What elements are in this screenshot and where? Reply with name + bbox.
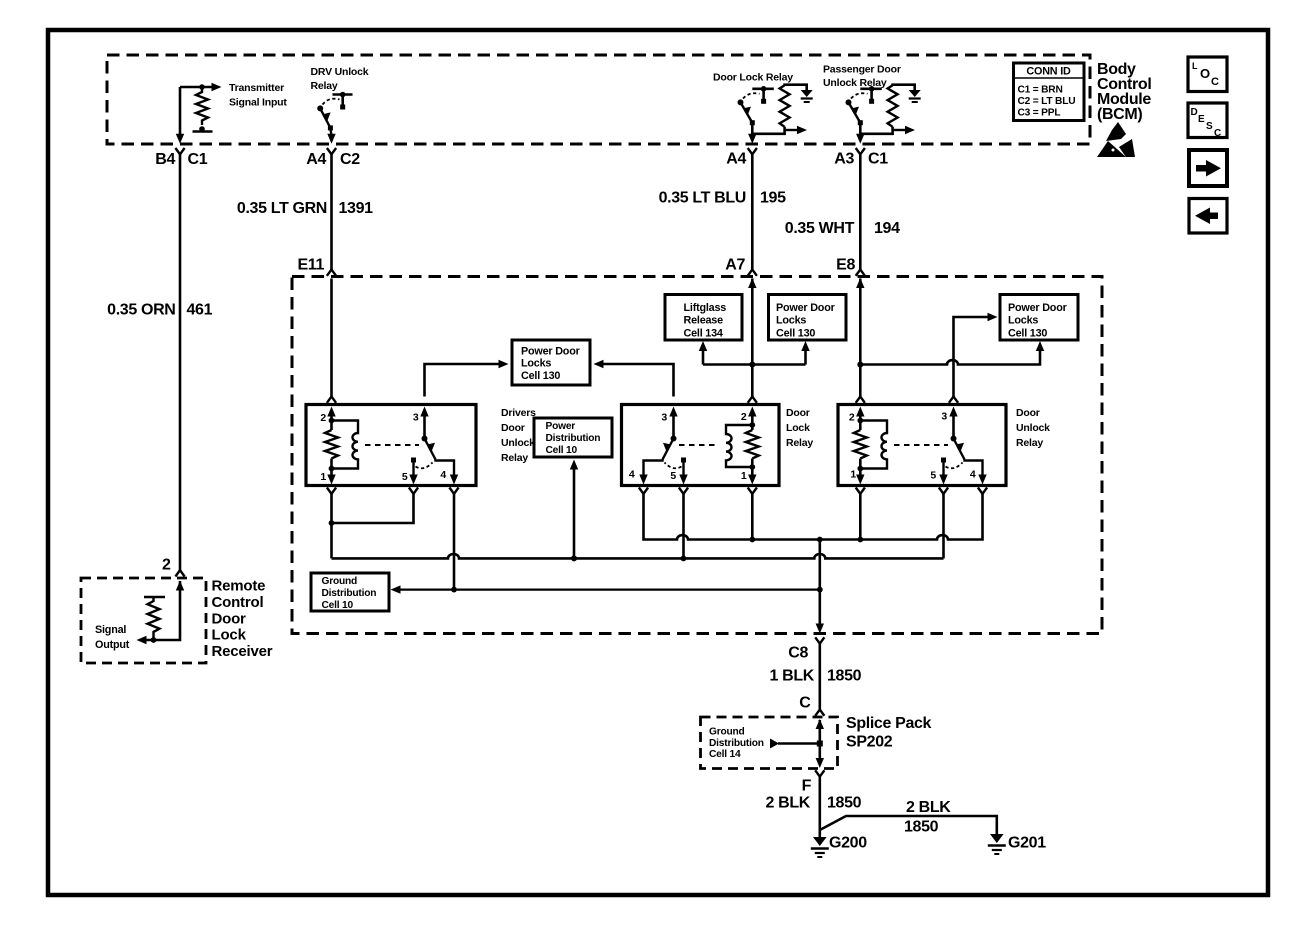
svg-text:C: C [1214,128,1221,139]
svg-text:Door: Door [212,611,247,628]
arrow from relay A pin3 to PDL box1 [425,360,509,397]
svg-text:Cell 10: Cell 10 [322,600,354,611]
svg-text:0.35 ORN: 0.35 ORN [107,302,175,319]
BCM dashed box [107,55,1090,144]
svg-text:A4: A4 [726,151,746,168]
ground bus 1 with hops [332,554,944,558]
svg-text:Cell 130: Cell 130 [521,370,560,382]
relay A label [501,407,536,464]
svg-text:5: 5 [930,470,936,482]
splice internal wire [816,720,824,768]
remote control door lock receiver dashed box [81,578,206,663]
connector A7 [725,257,757,289]
wire relay C pin 1 to bus 2 [857,494,863,543]
Y connectors below relay A [327,488,459,494]
svg-text:Door: Door [786,407,810,419]
svg-text:Release: Release [684,315,724,327]
svg-text:0.35 LT GRN: 0.35 LT GRN [237,200,327,217]
svg-text:Drivers: Drivers [501,407,536,419]
svg-text:Relay: Relay [501,452,528,464]
svg-text:Output: Output [95,639,130,651]
relay C pin 2 [849,407,865,431]
svg-text:SP202: SP202 [846,734,893,751]
relay B pin 2 [741,407,757,431]
button back arrow [1189,199,1227,234]
svg-text:C3 = PPL: C3 = PPL [1018,108,1061,119]
svg-text:C: C [1211,76,1219,88]
ground G201 [988,834,1046,854]
button LOC [1188,57,1227,92]
svg-text:0.35 LT BLU: 0.35 LT BLU [659,190,746,207]
wire C8 drop [816,537,824,634]
svg-text:C1 = BRN: C1 = BRN [1018,85,1063,96]
relay B coil-switch dashed link [679,444,719,446]
svg-text:A4: A4 [306,151,326,168]
svg-text:2 BLK: 2 BLK [906,799,951,816]
svg-text:C2: C2 [340,151,360,168]
svg-text:2: 2 [741,411,747,423]
arrow from relay B pin3 to PDL box1 [594,360,674,397]
splice internal arrow [770,739,823,749]
passenger relay coil resistor [862,85,915,134]
svg-text:1: 1 [741,470,747,482]
svg-text:1850: 1850 [827,668,862,685]
relay C pin 1 [850,459,864,485]
svg-text:2: 2 [162,557,171,574]
door lock relay coil resistor [754,85,807,134]
svg-text:CONN ID: CONN ID [1026,66,1071,78]
inner dashed box (relay compartment) [292,277,1102,634]
svg-text:2: 2 [320,412,326,424]
relay C pin3 riser arrow to PDL box3 [949,313,998,403]
svg-text:Splice Pack: Splice Pack [846,715,932,732]
relay box B: Door Lock Relay [622,405,780,486]
Liftglass Release Cell 134 box [665,295,742,341]
receiver resistor [144,597,165,643]
relay C resistor [854,430,867,459]
svg-text:2 BLK: 2 BLK [766,795,811,812]
relay A pin 4 [440,469,458,485]
svg-text:Door: Door [1016,407,1040,419]
svg-text:G201: G201 [1008,835,1046,852]
transmitter signal input label [229,82,287,109]
relay B pin 5 [665,458,688,485]
connector C (splice entry) [799,695,824,730]
wire 0.35 LT BLU 195 [659,154,787,270]
relay A pin 5 [402,458,433,485]
relay C coil loop [857,421,887,472]
relay C coil-switch dashed link [894,444,948,446]
ground distribution cell 14 label [709,727,764,761]
wire 0.35 LT GRN 1391 [237,154,373,270]
signal output label [95,624,130,651]
relay A pin 2 [320,407,335,431]
svg-text:Cell 134: Cell 134 [684,328,723,340]
svg-text:Unlock Relay: Unlock Relay [823,77,887,89]
DRV Unlock Relay label [311,66,369,92]
branch wire to G201 [820,799,997,836]
Y connectors below relay B [639,488,757,494]
ground G200 [811,835,867,858]
wire relay A pins 1+5 join [329,494,414,559]
svg-text:Distribution: Distribution [709,738,764,749]
relay B pin 4 [629,469,648,485]
svg-text:Transmitter: Transmitter [229,82,284,94]
svg-text:1: 1 [850,469,856,481]
svg-text:1 BLK: 1 BLK [770,668,815,685]
wire 1 BLK 1850 [770,644,862,710]
bus E8 to PDL box3 with hop [860,341,1044,365]
receiver label [212,578,273,661]
svg-text:Door Lock Relay: Door Lock Relay [713,72,793,84]
svg-text:3: 3 [661,412,667,424]
button next arrow [1189,150,1227,186]
svg-text:F: F [802,778,812,795]
svg-text:E: E [1198,114,1205,125]
relay B pin 1 [741,459,757,485]
transmitter resistor [193,87,213,132]
relay A pin 3 switch [413,407,454,479]
svg-text:0.35 WHT: 0.35 WHT [785,220,855,237]
door lock relay symbol [738,86,774,144]
relay A pin 1 [320,459,335,485]
svg-text:195: 195 [760,190,786,207]
svg-text:Power Door: Power Door [521,346,581,358]
svg-text:Cell 14: Cell 14 [709,749,741,760]
DRV unlock relay symbol [317,92,352,144]
svg-text:5: 5 [402,471,408,483]
wire B4 drop inside BCM [176,87,184,144]
wire E11 to relay A pin2 [327,279,336,403]
ESD symbol [1097,122,1135,157]
relay C pin 5 [930,458,962,485]
bus 2 with hops [644,494,983,540]
svg-text:A3: A3 [834,151,854,168]
svg-text:E11: E11 [297,257,324,274]
bus liftglass to PDL box2 [703,363,806,366]
svg-text:C1: C1 [188,151,208,168]
passenger relay ground [909,90,921,102]
svg-text:3: 3 [413,412,419,424]
connector A4 (relay) [726,148,757,168]
relay box A: Drivers Door Unlock Relay [306,405,476,486]
connector B4/C1 [155,148,207,168]
receiver internal wire [137,581,181,644]
svg-text:Remote: Remote [212,578,266,595]
svg-text:C: C [799,695,811,712]
relay B resistor [746,430,759,459]
svg-text:2: 2 [849,412,855,424]
wire 0.35 WHT 194 [785,154,900,270]
svg-text:Signal: Signal [95,624,126,636]
relay C pin 3 switch [941,407,982,479]
svg-text:3: 3 [941,411,947,423]
wire relay C pin 5 to bus 1 end [942,494,945,559]
button DESC [1188,103,1227,139]
svg-text:Ground: Ground [322,576,358,587]
connector E11 [297,257,336,276]
svg-text:Locks: Locks [1008,315,1038,327]
svg-text:C8: C8 [788,645,808,662]
relay box C: Door Unlock Relay [838,405,1006,486]
Passenger Door Unlock Relay label [823,64,901,90]
svg-text:1850: 1850 [904,819,939,836]
PDL box2 riser arrow [801,341,809,365]
svg-text:Lock: Lock [786,422,810,434]
svg-text:Distribution: Distribution [322,588,377,599]
svg-text:Power: Power [546,421,576,432]
relay A coil loop [329,421,358,472]
relay A coil-switch dashed link [365,444,419,446]
wire 2 BLK 1850 [766,777,862,838]
relay B coil loop [726,425,755,470]
Ground Distribution Cell 10 box [311,573,389,611]
passenger door unlock relay symbol [846,86,882,144]
connector F [802,770,825,794]
svg-text:A7: A7 [725,257,745,274]
svg-text:Lock: Lock [212,627,247,644]
Y connectors below relay C [856,488,987,494]
svg-text:Locks: Locks [521,358,551,370]
svg-text:Control: Control [212,594,264,611]
svg-text:4: 4 [440,469,446,481]
svg-text:C1: C1 [868,151,888,168]
svg-text:1: 1 [320,471,326,483]
wire A7 to relay B pin2 [748,279,757,403]
svg-text:S: S [1206,121,1213,132]
svg-text:Passenger Door: Passenger Door [823,64,901,76]
svg-text:O: O [1200,66,1210,81]
power distribution riser arrow [570,460,578,562]
wire relay B pin 1 to bus 2 [749,494,755,543]
svg-text:Ground: Ground [709,727,745,738]
liftglass riser arrow [699,341,707,365]
wire E8 to relay C pin2 [856,279,865,403]
svg-text:4: 4 [970,469,976,481]
svg-text:Relay: Relay [311,80,338,92]
Power Distribution Cell 10 box [534,418,612,457]
svg-text:Signal Input: Signal Input [229,97,287,109]
svg-text:D: D [1191,107,1198,118]
connector A3/C1 [834,148,888,168]
CONN ID table [1014,63,1085,121]
Power Door Locks Cell 130 box 1 [512,340,590,385]
svg-text:4: 4 [629,469,635,481]
svg-text:Unlock: Unlock [1016,422,1050,434]
svg-text:Cell 130: Cell 130 [776,328,815,340]
svg-text:Distribution: Distribution [546,433,601,444]
svg-text:Power Door: Power Door [776,302,836,314]
splice pack label [846,715,932,751]
passenger relay output arrow [893,126,915,134]
svg-text:C2 = LT BLU: C2 = LT BLU [1018,96,1076,107]
wire 0.35 ORN 461 [107,154,212,570]
svg-text:E8: E8 [836,257,855,274]
door lock relay ground [801,90,813,102]
relay B label [786,407,813,449]
svg-text:Cell 130: Cell 130 [1008,328,1047,340]
svg-text:(BCM): (BCM) [1097,106,1142,123]
svg-text:1850: 1850 [827,795,862,812]
svg-text:Cell 10: Cell 10 [546,445,578,456]
svg-text:Power Door: Power Door [1008,302,1068,314]
svg-text:461: 461 [187,302,213,319]
Power Door Locks Cell 130 box 2 [769,295,847,341]
svg-text:194: 194 [874,220,900,237]
svg-text:Unlock: Unlock [501,437,535,449]
relay A resistor [325,430,338,459]
ground distribution arrow line [391,585,823,593]
svg-text:Receiver: Receiver [212,643,273,660]
svg-text:DRV Unlock: DRV Unlock [311,66,369,78]
Power Door Locks Cell 130 box 3 [1000,295,1078,341]
BCM label [1097,61,1151,123]
connector E8 [836,257,865,289]
svg-text:Relay: Relay [1016,437,1043,449]
svg-text:1391: 1391 [339,200,374,217]
connector C8 [788,637,824,661]
svg-text:G200: G200 [829,835,867,852]
svg-text:B4: B4 [155,151,175,168]
svg-text:Locks: Locks [776,315,806,327]
relay C pin 4 [970,469,987,485]
door lock relay output arrow [785,126,807,134]
relay C label [1016,407,1050,449]
transmitter arrow wire [180,83,222,91]
relay B pin 3 switch [644,407,678,479]
svg-text:5: 5 [670,470,676,482]
splice pack dashed box [701,717,838,769]
svg-text:Relay: Relay [786,437,813,449]
wire relay B pin 5 to bus 1 [681,494,687,562]
svg-text:L: L [1192,61,1198,71]
svg-text:Liftglass: Liftglass [684,302,727,314]
svg-text:Door: Door [501,422,525,434]
wire relay A pin 4 drop to ground line [451,494,457,593]
connector A4/C2 [306,148,360,168]
connector 2 (receiver entry) [162,557,185,591]
